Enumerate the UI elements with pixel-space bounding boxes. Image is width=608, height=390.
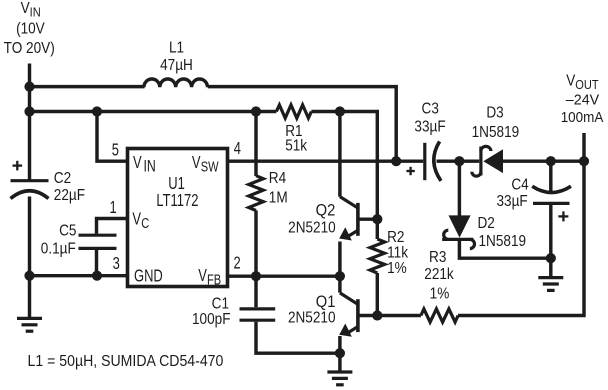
- svg-text:C2: C2: [54, 170, 71, 187]
- svg-text:R3: R3: [429, 249, 446, 266]
- svg-text:C4: C4: [511, 177, 528, 194]
- svg-text:1%: 1%: [387, 260, 407, 277]
- svg-text:Q2: Q2: [316, 202, 336, 220]
- svg-text:V: V: [132, 209, 141, 229]
- svg-text:L1: L1: [169, 40, 184, 57]
- svg-text:4: 4: [234, 138, 241, 158]
- svg-text:Q1: Q1: [316, 293, 336, 311]
- svg-text:1: 1: [110, 197, 117, 217]
- svg-text:221k: 221k: [424, 266, 454, 283]
- svg-text:22µF: 22µF: [54, 187, 85, 204]
- svg-text:C5: C5: [59, 223, 76, 240]
- svg-text:–24V: –24V: [566, 91, 599, 108]
- svg-text:47µH: 47µH: [160, 57, 193, 74]
- svg-text:C3: C3: [422, 101, 439, 118]
- svg-text:3: 3: [113, 253, 120, 273]
- svg-text:V: V: [192, 153, 201, 173]
- svg-text:TO 20V): TO 20V): [4, 41, 55, 58]
- svg-text:33µF: 33µF: [414, 119, 445, 136]
- svg-text:2N5210: 2N5210: [288, 220, 336, 237]
- svg-text:11k: 11k: [387, 245, 409, 262]
- svg-text:SW: SW: [201, 158, 220, 175]
- svg-text:100pF: 100pF: [192, 312, 231, 329]
- svg-text:5: 5: [112, 140, 119, 160]
- svg-text:33µF: 33µF: [496, 193, 527, 210]
- svg-text:51k: 51k: [285, 138, 308, 155]
- svg-text:R2: R2: [387, 230, 404, 247]
- svg-text:D2: D2: [478, 215, 495, 232]
- svg-text:FB: FB: [207, 271, 221, 288]
- svg-text:V: V: [133, 153, 142, 173]
- svg-text:V: V: [198, 266, 207, 286]
- svg-text:1M: 1M: [269, 190, 288, 207]
- svg-text:100mA: 100mA: [561, 109, 604, 126]
- svg-text:0.1µF: 0.1µF: [41, 241, 76, 258]
- svg-text:(10V: (10V: [16, 21, 45, 38]
- svg-text:C: C: [141, 214, 149, 231]
- svg-text:C1: C1: [212, 296, 229, 313]
- svg-text:1N5819: 1N5819: [479, 234, 527, 251]
- svg-text:D3: D3: [486, 105, 503, 122]
- svg-text:L1 = 50µH, SUMIDA CD54-470: L1 = 50µH, SUMIDA CD54-470: [28, 352, 224, 370]
- svg-text:GND: GND: [134, 267, 163, 287]
- svg-text:LT1172: LT1172: [156, 191, 198, 211]
- svg-text:1%: 1%: [430, 286, 450, 303]
- svg-text:IN: IN: [144, 158, 156, 176]
- svg-text:2N5210: 2N5210: [288, 310, 336, 327]
- svg-text:1N5819: 1N5819: [472, 124, 520, 141]
- svg-text:R4: R4: [269, 170, 286, 187]
- svg-text:2: 2: [234, 253, 241, 273]
